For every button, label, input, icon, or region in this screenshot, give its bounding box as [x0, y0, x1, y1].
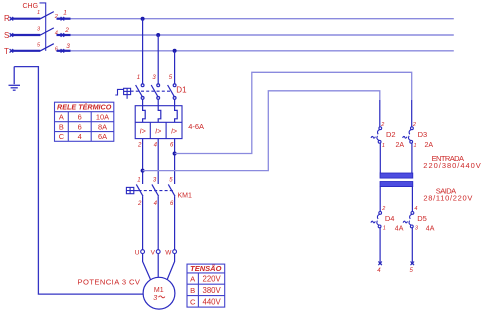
svg-text:4A: 4A — [395, 226, 404, 233]
svg-text:4A: 4A — [426, 226, 435, 233]
transformer T1 primary — [380, 173, 413, 178]
wire pole2 D1 to KM1 — [157, 139, 159, 184]
svg-text:D4: D4 — [385, 214, 395, 223]
wire KM1 to terminal V — [157, 196, 159, 250]
svg-text:2: 2 — [137, 143, 142, 149]
wire segment after terminal 4 — [57, 34, 71, 36]
svg-text:220/380/440V: 220/380/440V — [423, 161, 481, 170]
breaker D1 contact pole3 — [168, 84, 176, 106]
terminal V — [156, 250, 160, 254]
svg-text:D5: D5 — [417, 214, 427, 223]
heater element pole2 — [158, 106, 161, 123]
switch CHG pole 3 blade — [40, 28, 53, 35]
terminal W — [173, 250, 177, 254]
svg-text:2: 2 — [64, 27, 69, 34]
motor M1 — [143, 277, 175, 309]
wire ground to motor frame — [14, 67, 143, 295]
contactor KM1 coil actuator — [126, 187, 138, 193]
table TENSAO — [187, 264, 225, 307]
wire D4 to terminal 4 — [379, 228, 381, 262]
wire KM1 to terminal U — [142, 196, 144, 250]
junction dot pole3 tap — [173, 152, 177, 156]
heater element pole1 — [143, 106, 146, 123]
wire pole3 D1 to KM1 — [174, 139, 176, 184]
junction dot pole1 tap — [141, 169, 145, 173]
svg-text:10A: 10A — [96, 112, 109, 121]
wire D5 to terminal 5 — [411, 228, 413, 262]
terminal U — [141, 250, 145, 254]
svg-text:1: 1 — [382, 143, 385, 149]
wire U to motor — [143, 254, 151, 280]
junction dot line1 — [141, 17, 145, 21]
svg-text:1: 1 — [63, 9, 67, 16]
contactor KM1 link dashed — [139, 190, 175, 192]
svg-text:R: R — [4, 14, 10, 23]
breaker D1 trip link dashed — [131, 90, 172, 92]
fuse D4 — [371, 212, 382, 228]
wire transformer to fuse D5 — [411, 187, 413, 212]
wire V to motor — [157, 254, 159, 278]
terminal node 4 — [378, 262, 382, 266]
wire drop pole1 — [142, 19, 144, 84]
svg-text:1: 1 — [137, 75, 140, 81]
svg-text:B: B — [59, 122, 64, 131]
wire line 3 — [71, 50, 454, 52]
wire S to pole 3 — [11, 34, 40, 36]
ground — [9, 67, 21, 91]
svg-text:4: 4 — [78, 132, 82, 141]
svg-text:28/110/220V: 28/110/220V — [423, 193, 472, 202]
wire pole1 D1 to KM1 — [142, 139, 144, 184]
wire line 2 — [71, 34, 454, 36]
terminal 2 — [61, 17, 65, 21]
svg-text:4-6A: 4-6A — [188, 122, 204, 131]
breaker D1 contact pole1 — [136, 84, 144, 106]
svg-text:2: 2 — [380, 122, 384, 128]
svg-text:C: C — [190, 297, 196, 306]
wire tap pole1 to fuse D2 — [143, 91, 380, 171]
wire segment after terminal 2 — [57, 18, 71, 20]
svg-text:4: 4 — [414, 206, 417, 212]
svg-text:KM1: KM1 — [178, 192, 193, 199]
contactor KM1 contact pole3 — [168, 184, 175, 196]
wire drop pole2 — [157, 35, 159, 84]
transformer T1 secondary — [380, 182, 413, 187]
wire T to pole 5 — [11, 50, 40, 52]
terminal S — [10, 33, 14, 37]
svg-text:3: 3 — [153, 293, 157, 302]
wire KM1 to terminal W — [174, 196, 176, 250]
svg-text:C: C — [59, 132, 65, 141]
switch CHG mechanical link — [40, 3, 46, 51]
breaker D1 trip actuator — [115, 88, 130, 99]
breaker D1 contact pole2 — [151, 84, 159, 106]
svg-text:1: 1 — [137, 178, 140, 184]
overload relay box — [135, 106, 182, 139]
terminal node 5 — [411, 262, 415, 266]
svg-text:U: U — [135, 249, 140, 256]
svg-text:S: S — [4, 31, 9, 40]
svg-text:TENSÃO: TENSÃO — [190, 264, 221, 273]
svg-text:220V: 220V — [202, 275, 221, 284]
terminal 6 — [61, 49, 65, 53]
fuse D5 — [403, 212, 414, 228]
svg-text:D1: D1 — [176, 86, 187, 95]
svg-text:1: 1 — [383, 226, 386, 232]
svg-text:V: V — [151, 249, 156, 256]
svg-text:B: B — [190, 286, 195, 295]
wire W to motor — [167, 254, 174, 280]
heater element pole3 — [175, 106, 178, 123]
svg-text:I>: I> — [155, 129, 161, 136]
svg-text:RELE TÉRMICO: RELE TÉRMICO — [57, 103, 112, 112]
switch CHG pole 1 blade — [40, 12, 53, 19]
wire D2 to transformer — [379, 143, 381, 173]
wire tap pole3 to fuse D3 — [175, 72, 412, 153]
contactor KM1 contact pole1 — [136, 184, 143, 196]
wire D3 to transformer — [411, 143, 413, 173]
wire drop pole3 — [174, 51, 176, 84]
svg-text:I>: I> — [140, 129, 146, 136]
svg-text:W: W — [165, 249, 172, 256]
svg-text:6A: 6A — [98, 132, 107, 141]
svg-text:A: A — [59, 112, 64, 121]
svg-text:8A: 8A — [98, 122, 107, 131]
junction dot line2 — [156, 33, 160, 37]
svg-text:6: 6 — [78, 122, 82, 131]
switch CHG pole 5 blade — [40, 44, 53, 51]
svg-text:2: 2 — [381, 206, 385, 212]
fuse D2 — [371, 127, 382, 143]
svg-text:440V: 440V — [202, 297, 221, 306]
svg-text:6: 6 — [78, 112, 82, 121]
svg-text:2A: 2A — [425, 142, 434, 149]
terminal T — [10, 49, 14, 53]
wire transformer to fuse D4 — [379, 187, 381, 212]
svg-text:T: T — [4, 47, 9, 56]
terminal R — [10, 17, 14, 21]
svg-text:D3: D3 — [418, 130, 428, 139]
svg-text:I>: I> — [171, 129, 177, 136]
svg-text:1: 1 — [414, 143, 417, 149]
fuse D3 — [403, 127, 414, 143]
svg-text:CHG: CHG — [23, 3, 39, 10]
svg-text:POTENCIA 3 CV: POTENCIA 3 CV — [78, 277, 141, 286]
svg-text:380V: 380V — [202, 286, 221, 295]
svg-text:D2: D2 — [386, 130, 396, 139]
wire R to pole 1 — [11, 18, 40, 20]
contactor KM1 contact pole2 — [152, 184, 159, 196]
terminal 4 — [61, 33, 65, 37]
svg-text:2: 2 — [137, 201, 142, 207]
svg-text:1: 1 — [37, 10, 40, 16]
svg-text:2A: 2A — [396, 142, 405, 149]
svg-text:3: 3 — [66, 43, 70, 50]
table RELE TERMICO — [55, 102, 114, 141]
junction dot line3 — [173, 49, 177, 53]
wire line 1 — [71, 18, 454, 20]
svg-text:2: 2 — [412, 122, 416, 128]
wire segment after terminal 6 — [57, 50, 71, 52]
